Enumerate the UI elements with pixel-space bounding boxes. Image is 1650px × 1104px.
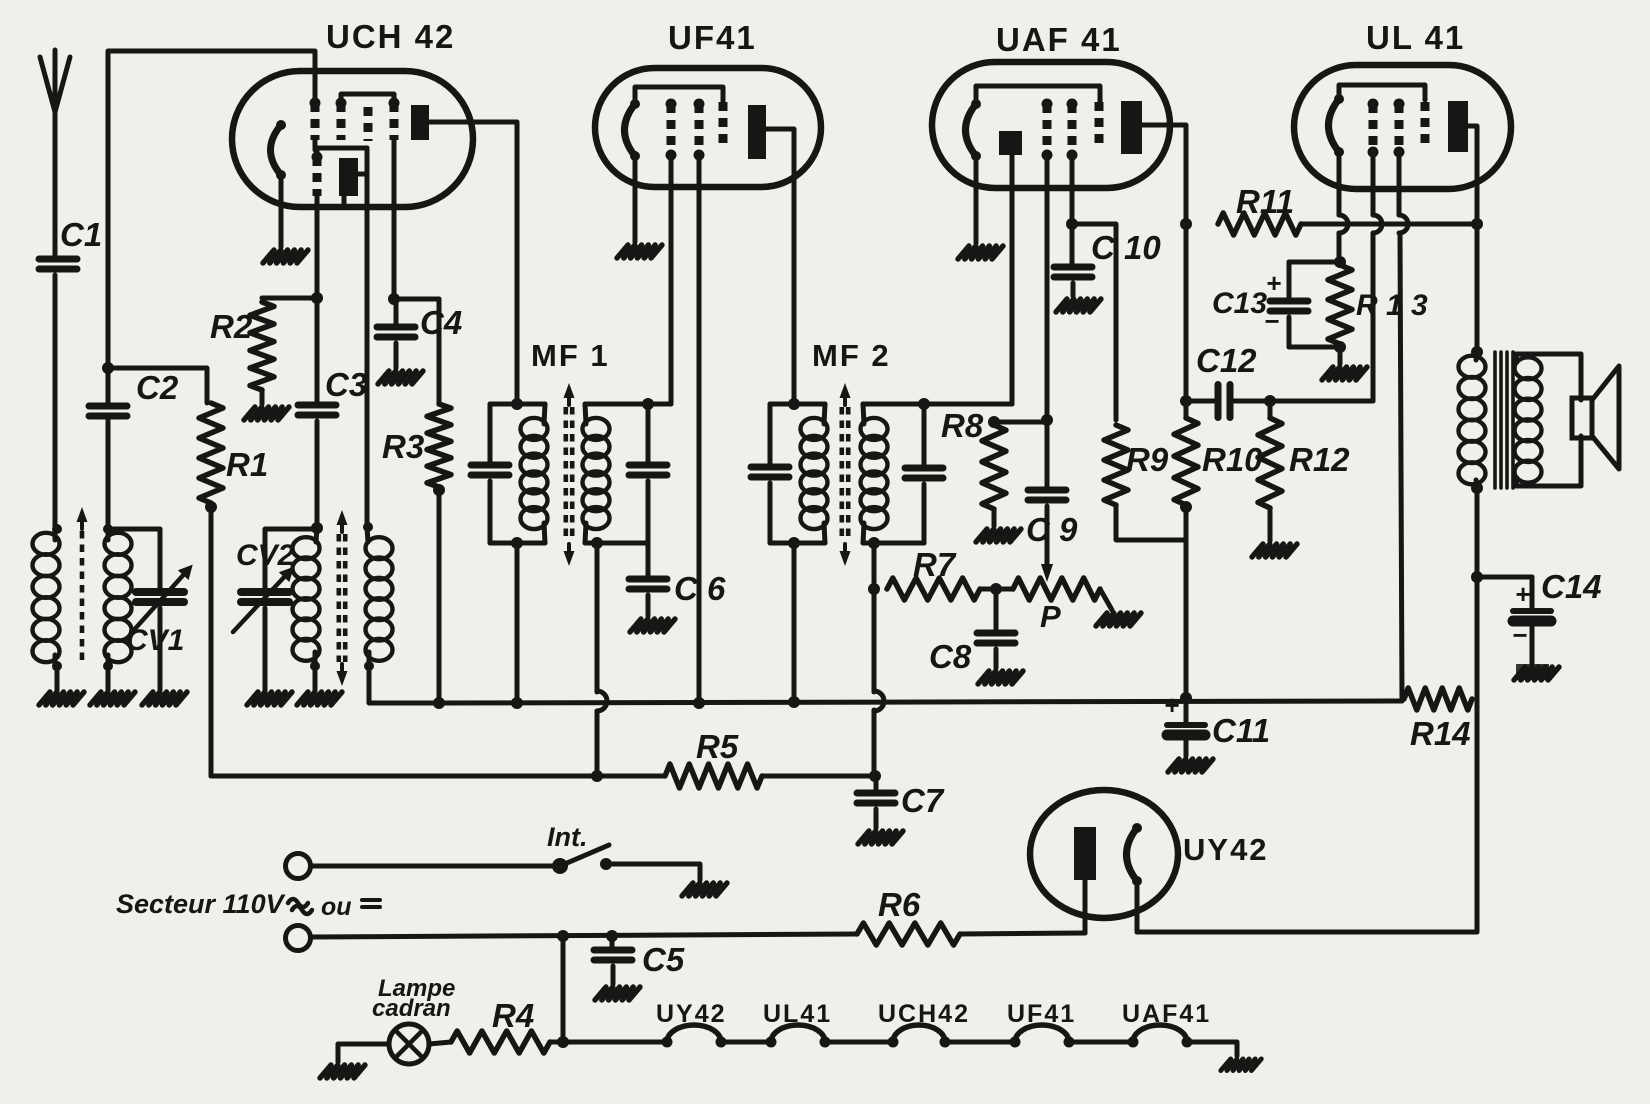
node R1 bottom [205,501,217,513]
wire g1 to C12 [1371,233,1376,401]
ground C4 [378,371,389,384]
wire C4 down [394,299,399,327]
capacitor C7 [857,790,895,797]
svg-text:R6: R6 [878,886,921,923]
wire lamp ground [338,1044,389,1062]
wire AVC left [211,774,665,779]
ground switch [682,883,693,896]
wire MF2 right frame [922,404,927,468]
svg-text:Int.: Int. [547,822,588,852]
node g2 junction [1066,218,1078,230]
svg-text:UY42: UY42 [1183,832,1269,867]
wire to R10 [1184,401,1189,418]
svg-text:C3: C3 [325,366,367,403]
node MF1 sec bottom [591,537,603,549]
wire g4 pin UCH42 [392,140,397,299]
ground lamp [320,1065,331,1078]
wire MF1 bottom left [490,541,545,546]
wire hexode anode out [429,122,517,404]
svg-text:C13: C13 [1212,287,1267,320]
wire MF1 right frame low [646,481,651,543]
ground UF41 heater [617,245,628,258]
node g1 R8 [1041,414,1053,426]
resistor R9 [1104,425,1128,505]
wire MF2 top right [863,402,1012,407]
ground C6 [630,619,641,632]
capacitor C1 [39,256,77,263]
svg-text:C11: C11 [1212,712,1270,749]
svg-text:C 10: C 10 [1091,229,1161,266]
wire C3 to CV2 node [315,421,320,528]
node bus C11 [1180,692,1192,704]
svg-text:R14: R14 [1410,715,1471,752]
node R13 bottom [1334,341,1346,353]
wire C7 ground [874,809,879,828]
wire R2 to ground [260,390,265,404]
svg-text:UL41: UL41 [763,1000,832,1028]
wire antenna down [53,112,58,259]
node bus R3 [433,697,445,709]
svg-text:MF 1: MF 1 [531,338,610,373]
wire speaker bottom [1516,436,1581,486]
node AVC MF1 [591,770,603,782]
capacitor C4 [377,324,415,331]
triode grid UCH42 [313,157,322,196]
heater hump UY42 [667,1025,721,1042]
wire det down [872,589,877,692]
wire C6 down [646,543,651,579]
wire UF41 heater pin [633,156,638,242]
grid g3 UAF41 [1095,102,1104,148]
ground C11 [1168,759,1179,772]
tube UY42 envelope [1030,790,1178,918]
node ant coil top [52,524,62,534]
antenna coil secondary [105,533,132,555]
ground ant secondary [90,692,101,705]
anode hexode UCH42 [411,105,429,140]
anode UF41 [748,105,766,159]
capacitor C11 [1167,722,1205,728]
wire coil to ground [55,666,60,690]
capacitor C14 [1513,608,1551,614]
ground R13 [1322,367,1333,380]
oscillator coil primary [293,537,320,559]
triode grid tie [317,148,367,157]
node osc coil bottom [310,661,320,671]
wire C5 down [610,936,615,950]
wire C11 down [1184,698,1189,725]
wire CV2 to ground [263,608,268,690]
svg-text:−: − [1512,620,1527,650]
node OT bottom [1471,482,1483,494]
ground R8 [976,529,987,542]
wire B+ down [1475,224,1480,352]
node MF2 feed [788,398,800,410]
bracket UL41 [1339,85,1425,100]
node C5 tap [606,930,618,942]
core OT [1493,352,1497,488]
capacitor C12 [1215,385,1222,418]
svg-text:UCH42: UCH42 [878,1000,970,1028]
resistor R13 [1328,265,1352,344]
anode triode UCH42 [339,158,358,196]
svg-text:+: + [1515,579,1530,609]
arrow CV1 [133,572,186,631]
node C12 junction [1180,395,1192,407]
capacitor C5 [594,947,632,954]
wire cathode to B+ [1137,930,1477,935]
diode anode UAF41 [999,131,1022,155]
grid g3 UL41 [1421,102,1430,147]
wire osc feed [365,148,370,527]
wire MF1 left frame low [488,481,493,543]
wire R9 feed [1072,224,1116,420]
wire C9 to wiper [1045,506,1050,568]
wiper P [1041,564,1053,582]
potentiometer P [1013,578,1100,600]
resistor R1 [199,403,223,503]
svg-text:+: + [1164,690,1179,720]
node osc sec bottom [364,661,374,671]
resistor R5 [665,764,762,788]
wire C7 down [874,776,879,793]
coil MF2 primary [801,418,828,440]
wire MF1 bottom right [585,541,648,546]
capacitor C13 [1270,298,1308,305]
wire speaker top [1516,354,1581,400]
wire C5 ground [611,966,616,984]
wire CV1 to ground [158,608,163,690]
svg-text:C12: C12 [1196,342,1257,379]
wire R2 link [262,296,317,301]
bracket UF41 [635,87,723,104]
capacitor C3 [298,402,336,409]
wire to C3 [315,298,320,405]
wire UAF41 anode out [1142,125,1186,224]
ground C8 [978,671,989,684]
svg-text:R 1 3: R 1 3 [1356,289,1428,322]
anode UAF41 [1121,101,1142,154]
grid g2 UAF41 [1068,104,1077,155]
core oscillator [336,534,341,662]
svg-text:UF41: UF41 [1007,1000,1076,1028]
wire osc sec to bus corner [369,666,439,703]
wire switch right [612,864,700,880]
wire chain tail [1187,1042,1237,1056]
svg-text:R12: R12 [1289,441,1350,478]
node osc junction [311,522,323,534]
terminal mains top [286,854,311,879]
grid g3 UCH42 [364,107,373,141]
node heater tap [557,930,569,942]
oscillator coil secondary [366,537,393,559]
grid g1 UAF41 [1043,104,1052,155]
svg-text:CV1: CV1 [126,624,184,657]
wire C2 to coil [106,416,111,529]
resistor R7 [887,578,980,600]
node C4 junction [388,293,400,305]
wire UL41 g1 pin [1371,152,1376,215]
wire UF41 g1 pin [669,155,674,404]
ground heater UCH42 [263,250,274,263]
node osc sec top [363,522,373,532]
wire R9 bottom [1116,505,1186,540]
heater UL41 [1329,99,1340,152]
svg-text:UL 41: UL 41 [1366,19,1465,56]
wire MF1 sec down2 [595,711,600,776]
tube UL41 envelope [1294,65,1511,189]
heater hump UF41 [1015,1025,1069,1042]
node R13 top [1334,256,1346,268]
wire R11 to B+ [1301,222,1477,227]
ground R2 [244,407,255,420]
node OT top [1471,346,1483,358]
wire C13 frame [1287,262,1292,301]
wire C4 link [394,297,439,302]
speaker [1572,398,1592,438]
svg-text:C5: C5 [642,941,685,978]
heater UY42 [1127,828,1138,881]
svg-text:ou: ou [321,893,352,921]
wire C14 down [1530,577,1535,611]
svg-text:R4: R4 [492,997,534,1034]
wire box to R1 [108,368,207,403]
antenna coil primary [33,533,60,555]
wire chain1 [721,1040,771,1045]
wire sec to ground [106,666,111,690]
coil OT primary [1459,356,1486,378]
coil MF1 primary [521,418,548,440]
svg-text:UAF41: UAF41 [1122,1000,1211,1028]
node R10 bottom [1180,501,1192,513]
wire UY42 cathode pin [1135,881,1140,932]
node C14 tap [1471,571,1483,583]
node R3 bottom [433,484,445,496]
wire MF2 prim to bus [792,543,797,702]
wire diode pin [1010,155,1015,404]
node ant coil bottom [52,661,62,671]
node R12 tap [1264,395,1276,407]
heater UF41 [625,104,636,156]
wire R1 down to AVC line [209,507,214,776]
node R2 junction [311,292,323,304]
svg-text:R10: R10 [1202,441,1263,478]
svg-text:cadran: cadran [372,995,451,1022]
wire P to ground [1100,589,1112,610]
node sec top [103,524,113,534]
node sec bottom [103,661,113,671]
wire heater drop [561,936,566,1042]
wire MF2 top left [770,402,825,407]
resistor R3 [427,404,451,487]
heater UAF41 [966,104,977,156]
grid g2 UL41 [1395,104,1404,152]
wire CV2 frame [265,529,317,592]
node bus UF41 g2 [693,697,705,709]
svg-text:MF 2: MF 2 [812,338,891,373]
node MF2 sec bottom [868,537,880,549]
hop g2 over R11 [1399,215,1408,233]
wire C8 ground [994,649,999,668]
capacitor C10 [1054,264,1092,271]
resistor R6 [857,923,960,945]
svg-text:R9: R9 [1126,441,1169,478]
wire UL41 g2 pin [1397,152,1402,215]
grid g2 UCH42 [337,103,346,140]
hop cathode over R11 [1339,215,1348,233]
grid g3 UF41 [719,102,728,150]
ground CV2 [247,692,258,705]
wire MF1 sec down [595,543,600,692]
wire C14 ground [1530,627,1535,664]
capacitor C6 [629,576,667,583]
wire UAF41 heater pin [974,156,979,243]
wire C11 ground [1184,741,1189,756]
resistor R2 [250,302,274,390]
hop det over bus [874,691,884,711]
wire R4 to chain [550,1040,667,1045]
node R7 left [868,583,880,595]
anode UL41 [1448,101,1468,152]
node MF2 prim bottom [788,537,800,549]
resistor R4 [451,1031,550,1053]
wire g1 pin UAF41 [1045,155,1050,420]
wire mains top [311,864,553,869]
ground ant primary [39,692,50,705]
grid g2 UF41 [695,104,704,155]
svg-text:Secteur 110V: Secteur 110V [116,889,286,919]
wire det down2 [872,710,877,776]
ground C7 [858,831,869,844]
wire MF1 top right [585,402,671,407]
capacitor C9 [1028,487,1066,494]
wire heater pin UCH42 [279,175,284,247]
ground CV1 [142,692,153,705]
wire MF1 left frame [488,404,493,465]
svg-text:R3: R3 [382,428,424,465]
heater UCH42 [271,125,282,175]
wire R7 to P [980,587,1013,592]
wire UF41 anode out [766,129,794,404]
svg-text:R2: R2 [210,308,253,345]
coil MF1 secondary [583,418,610,440]
wire R3 feed [437,299,442,404]
wire R8 ground [992,509,997,526]
node R8 top [988,416,1000,428]
wire C6 ground [646,595,651,616]
arrow CV2 [233,574,287,632]
wire top feed [108,51,315,368]
hop g1 over R11 [1373,215,1382,233]
variable capacitor CV1 [136,588,184,596]
wire C1 to coil [53,275,58,529]
ground osc primary [297,692,308,705]
wire C13R13 top [1289,260,1340,265]
resistor R14 [1404,688,1472,710]
core MF2 [839,407,844,542]
wire C8 down [994,589,999,633]
wire R10 to bus [1184,507,1189,698]
terminal mains bottom [286,926,311,951]
wire g1 pin UCH42 [313,140,318,150]
capacitor MF2 secondary [905,465,943,472]
wire junction to C2 [106,368,111,406]
wire g2 to bus [1400,233,1402,701]
node R11 left [1180,218,1192,230]
svg-text:R7: R7 [913,546,957,583]
wire C10 ground [1071,283,1076,296]
wire UY42 anode pin [1083,880,1088,933]
svg-text:R1: R1 [226,446,268,483]
node C2 junction [102,362,114,374]
svg-text:R5: R5 [696,728,739,765]
lamp cadran [389,1024,429,1064]
wire MF1 prim to bus [515,543,520,703]
svg-text:C 9: C 9 [1026,511,1078,548]
wire g2 pin UAF41 [1070,155,1075,224]
wire chain4 [1069,1040,1133,1045]
tube UAF41 envelope [932,62,1170,188]
wire triode anode stub [358,172,367,177]
wire B+ bus [439,701,1402,703]
symbol ac [288,899,308,907]
capacitor C8 [977,630,1015,637]
node MF1 cap top [642,398,654,410]
ground chain [1221,1059,1231,1071]
coil OT secondary [1515,357,1542,379]
wire MF2 bottom right [863,541,924,546]
grid g4 UCH42 [390,103,399,140]
svg-text:+: + [1266,268,1281,298]
wire MF2 left frame [768,404,773,467]
node AVC right [869,770,881,782]
wire MF1 feed node [511,398,523,410]
core MF1 [563,407,568,542]
wire R13 ground [1338,347,1343,364]
anode UY42 [1074,827,1096,880]
wire MF1 top left [490,402,545,407]
tube UF41 envelope [595,68,821,187]
grid g1 UCH42 [311,103,320,140]
tube UCH42 envelope [232,71,473,207]
grid g1 UL41 [1369,104,1378,152]
wire chain3 [945,1040,1015,1045]
capacitor C2 [89,403,127,410]
wire anode down [1184,224,1189,401]
heater hump UL41 [771,1025,825,1042]
node MF1 prim bottom [511,537,523,549]
coil MF2 secondary [861,418,888,440]
wire C14 link [1477,575,1532,580]
resistor R11 [1218,213,1301,235]
ground UAF41 heater [958,246,969,259]
svg-text:C1: C1 [60,216,102,253]
wire lamp to R4 [429,1042,451,1044]
wire R3 to bus [437,490,442,703]
hop MF1 over bus [597,691,607,711]
wire MF2 left frame low [768,483,773,543]
core antenna coil [80,531,85,664]
wire C12 to grid [1232,399,1373,404]
wire chain2 [825,1040,893,1045]
capacitor MF1 primary [471,462,509,469]
wire mains bottom [311,934,857,937]
heater hump UCH42 [893,1025,945,1042]
wire MF2 right frame low [922,484,927,543]
svg-text:UAF 41: UAF 41 [996,21,1122,58]
wire AVC right [762,774,876,779]
svg-text:C8: C8 [929,638,972,675]
